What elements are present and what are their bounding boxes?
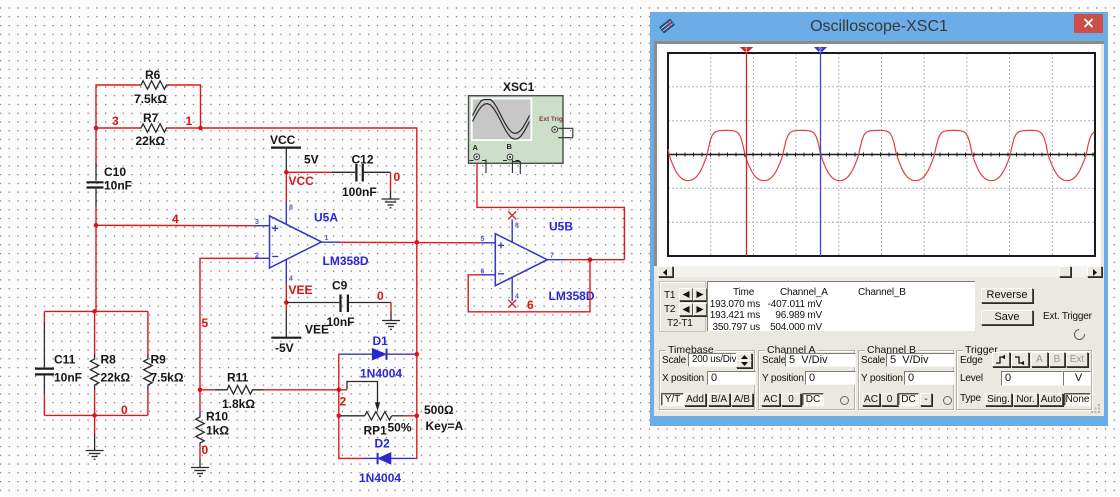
svg-text:4: 4: [172, 212, 179, 226]
junction D1 right: [415, 352, 420, 357]
capacitor C10: [87, 163, 133, 207]
svg-text:Key=A: Key=A: [426, 419, 464, 433]
svg-text:22kΩ: 22kΩ: [101, 371, 131, 385]
svg-text:Ext Trig: Ext Trig: [539, 116, 563, 123]
svg-text:D1: D1: [373, 334, 389, 348]
svg-text:C9: C9: [332, 279, 348, 293]
resistor R10: [196, 390, 230, 445]
svg-text:10nF: 10nF: [54, 371, 82, 385]
svg-text:1N4004: 1N4004: [360, 367, 402, 381]
resize grip: [1090, 403, 1102, 415]
wire: left rail of limiter network: [339, 354, 364, 458]
wire: VCC node to C12: [286, 171, 333, 173]
wire: R6 loop left/right verticals and top: [96, 85, 201, 128]
wire: C9 to ground, node 0: [377, 289, 391, 321]
Channel A group: [758, 350, 855, 410]
svg-text:22kΩ: 22kΩ: [136, 134, 166, 148]
Channel B group: [858, 350, 954, 410]
svg-text:U5B: U5B: [549, 220, 573, 234]
svg-text:R6: R6: [145, 68, 161, 82]
svg-text:3: 3: [255, 219, 259, 226]
wire: R10 to ground, node 0: [200, 443, 209, 468]
wire: C10 to node4 junction: [95, 207, 97, 225]
svg-text:D2: D2: [375, 437, 391, 451]
junction rail bottom: [92, 413, 97, 418]
junction VEE node: [284, 300, 289, 305]
capacitor C12: [332, 153, 391, 200]
svg-text:A: A: [473, 143, 479, 152]
resistor R6: [134, 68, 169, 106]
svg-text:100nF: 100nF: [342, 185, 377, 199]
net VCC label: [289, 174, 315, 188]
svg-text:VEE: VEE: [305, 323, 329, 337]
svg-text:1N4004: 1N4004: [359, 471, 401, 485]
svg-text:RP1: RP1: [364, 424, 388, 438]
svg-text:0: 0: [394, 170, 401, 184]
svg-text:7: 7: [550, 253, 554, 260]
wire: feedback loop U5B output to in- , node 6: [468, 260, 590, 312]
op-amp U5B: [481, 220, 595, 304]
ground (RC network): [86, 451, 104, 460]
svg-text:3: 3: [112, 114, 119, 128]
potentiometer RP1: [340, 403, 464, 438]
wire: RC network bottom rail, node 0: [44, 403, 147, 417]
wire: U5A pin4 to VEE node: [285, 284, 287, 303]
junction rail top: [92, 309, 97, 314]
svg-text:U5A: U5A: [314, 211, 338, 225]
svg-text:1: 1: [325, 235, 329, 242]
svg-text:C12: C12: [352, 153, 374, 167]
svg-text:VEE: VEE: [289, 283, 313, 297]
svg-text:R10: R10: [206, 410, 228, 424]
no-connect X on U5B pin 4: [508, 300, 516, 308]
power symbol VCC: [270, 133, 319, 172]
svg-text:C11: C11: [54, 353, 76, 367]
svg-text:VCC: VCC: [270, 133, 296, 147]
svg-text:5: 5: [481, 236, 485, 243]
wire: RP1 right lead to rail: [404, 415, 417, 417]
wire: right rail of limiter network: [414, 242, 417, 458]
measurement readout box: [707, 281, 975, 331]
wire: node3 to R7: [96, 127, 140, 129]
wire: C12 to ground, node 0: [391, 170, 401, 199]
svg-text:R8: R8: [101, 353, 117, 367]
svg-text:-5V: -5V: [275, 341, 294, 355]
wire: rail bottom to ground: [94, 415, 96, 450]
svg-text:R11: R11: [227, 371, 249, 385]
junction: output/feedback node: [415, 240, 420, 245]
no-connect X on U5B pin 8: [508, 211, 516, 219]
junction R11/R10/wire5: [198, 388, 203, 393]
svg-text:5V: 5V: [304, 153, 319, 167]
wire: U5B output to scope branch corner: [566, 259, 624, 261]
svg-text:R7: R7: [143, 111, 159, 125]
svg-text:6: 6: [527, 298, 534, 312]
scrollbar: [658, 266, 1101, 277]
svg-text:LM358D: LM358D: [549, 289, 595, 303]
svg-text:LM358D: LM358D: [323, 254, 369, 268]
T1/T2 cursor readout controls: [659, 281, 706, 332]
svg-text:7.5kΩ: 7.5kΩ: [134, 92, 167, 106]
svg-text:1kΩ: 1kΩ: [206, 424, 229, 438]
wire: scope channel A connection: [477, 160, 624, 260]
junction U5B output: [588, 257, 593, 262]
svg-text:4: 4: [289, 276, 293, 283]
svg-text:2: 2: [255, 253, 259, 260]
wire: node3 down to C10: [95, 128, 97, 164]
ground (C12): [382, 199, 400, 208]
junction node 2: [337, 388, 342, 393]
wire: U5A output to junction and on to U5B in+: [340, 241, 481, 244]
resistor R7: [136, 111, 169, 148]
resistor R9: [144, 311, 184, 415]
net VEE label: [289, 283, 313, 297]
wire 4: node4 to U5A in+: [96, 212, 255, 226]
svg-text:0: 0: [202, 443, 209, 457]
capacitor C11: [35, 311, 82, 415]
scope display: [654, 41, 1104, 281]
Timebase group: [659, 350, 755, 410]
svg-text:7.5kΩ: 7.5kΩ: [151, 371, 184, 385]
diode D1 (1N4004): [340, 334, 415, 381]
svg-text:50%: 50%: [388, 421, 412, 435]
node 3 label: [112, 114, 119, 128]
oscilloscope window XSC1: [650, 12, 1108, 426]
junction VCC node: [284, 170, 289, 175]
svg-text:0: 0: [377, 289, 384, 303]
op-amp U5A: [255, 202, 369, 284]
wire: node4 down to RC network rail: [95, 225, 97, 311]
wire: node1 long run to right and down to U5A output: [168, 128, 417, 242]
svg-text:2: 2: [340, 395, 347, 409]
svg-text:XSC1: XSC1: [503, 80, 535, 94]
svg-text:1: 1: [186, 114, 193, 128]
power symbol VEE (-5V): [271, 303, 329, 356]
svg-text:500Ω: 500Ω: [424, 403, 454, 417]
svg-text:8: 8: [515, 223, 519, 230]
ground (R10): [191, 468, 209, 477]
resistor R8: [90, 311, 130, 415]
Trigger group: [956, 350, 1092, 410]
junction node 4: [94, 223, 99, 228]
junction RP1 right: [415, 414, 420, 419]
ground (C9): [382, 321, 400, 330]
svg-text:10nF: 10nF: [104, 179, 132, 193]
junction RP1 left: [337, 414, 342, 419]
svg-text:C10: C10: [104, 165, 126, 179]
svg-text:B: B: [507, 142, 513, 151]
wire: VCC node to op-amp pin8: [285, 172, 287, 201]
instrument XSC1 icon: [469, 80, 573, 174]
capacitor C9: [287, 279, 391, 330]
wire: wiper of RP1: [347, 382, 380, 412]
wire 5: U5A in- run left and down to R11: [200, 258, 255, 390]
svg-text:0: 0: [121, 403, 128, 417]
Reverse / Save buttons: [981, 288, 1033, 303]
junction node 1: [198, 126, 203, 131]
svg-text:VCC: VCC: [289, 174, 315, 188]
node 1 label: [186, 114, 193, 128]
diode D2 (1N4004): [359, 437, 414, 486]
svg-text:6: 6: [481, 269, 485, 276]
svg-text:10nF: 10nF: [327, 315, 355, 329]
svg-text:5: 5: [202, 316, 209, 330]
wire: RC network top rail: [44, 310, 147, 312]
resistor R11: [200, 371, 264, 412]
junction node 3: [94, 126, 99, 131]
wire: R11 to node 2: [264, 390, 348, 409]
svg-text:R9: R9: [151, 353, 167, 367]
svg-text:8: 8: [289, 205, 293, 212]
